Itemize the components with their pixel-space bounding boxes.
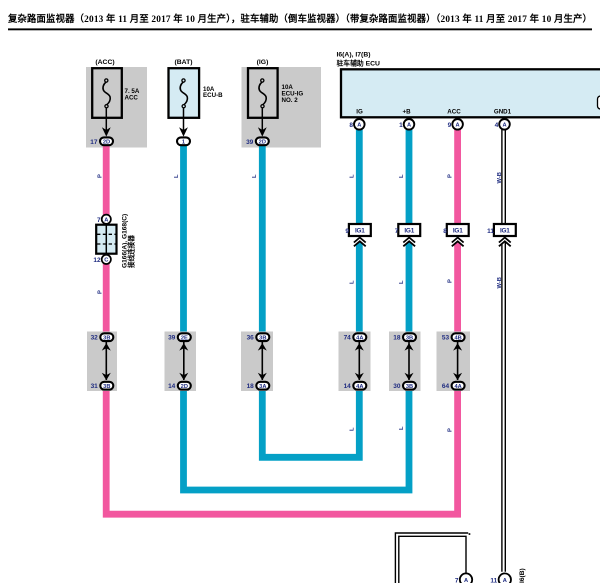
fuse F3 10A ECU-IG NO.2 [246, 59, 303, 146]
svg-text:IG1: IG1 [453, 228, 463, 235]
svg-text:36: 36 [247, 335, 255, 342]
svg-text:31: 31 [91, 383, 99, 390]
svg-text:12: 12 [93, 257, 101, 264]
wire GND1 white (double line) [502, 128, 505, 572]
fuse F1 7.5A ACC [90, 59, 140, 146]
svg-text:2D: 2D [181, 384, 188, 390]
junction connector 7 IG1 [395, 224, 420, 248]
svg-text:3B: 3B [406, 335, 413, 341]
svg-text:A: A [357, 123, 361, 129]
svg-text:7: 7 [395, 228, 399, 235]
svg-text:驻车辅助 ECU: 驻车辅助 ECU [337, 59, 381, 68]
svg-text:64: 64 [442, 383, 450, 390]
svg-text:A: A [502, 123, 506, 129]
svg-text:W-B: W-B [497, 172, 503, 183]
svg-text:I6(A), I7(B): I6(A), I7(B) [337, 52, 371, 59]
svg-text:32: 32 [91, 335, 99, 342]
svg-text:39: 39 [168, 335, 176, 342]
svg-text:L: L [349, 280, 355, 284]
svg-text:9: 9 [448, 122, 452, 129]
junction connector G166(A)/G168(C) [93, 214, 135, 268]
svg-text:IG1: IG1 [404, 228, 414, 235]
inline connector pair 32/31 3B [87, 332, 117, 392]
svg-text:3B: 3B [259, 335, 266, 341]
svg-text:IG1: IG1 [500, 228, 510, 235]
svg-text:接线连接器: 接线连接器 [127, 235, 136, 268]
svg-text:30: 30 [393, 383, 401, 390]
svg-text:11: 11 [487, 228, 494, 235]
svg-text:3B: 3B [103, 384, 110, 390]
svg-text:C: C [104, 258, 108, 264]
svg-text:A: A [464, 578, 468, 583]
svg-text:L: L [252, 174, 258, 178]
svg-text:IG: IG [356, 109, 363, 116]
svg-text:P: P [97, 174, 103, 178]
svg-text:18: 18 [247, 383, 255, 390]
inline connector pair 18/30 3B [389, 332, 421, 392]
svg-text:4A: 4A [356, 335, 363, 341]
svg-text:3A: 3A [259, 384, 266, 390]
svg-text:(BAT): (BAT) [175, 59, 193, 66]
svg-text:NO. 2: NO. 2 [282, 97, 299, 104]
svg-text:+B: +B [402, 109, 411, 116]
svg-text:39: 39 [246, 139, 254, 146]
fuse F2 10A ECU-B [169, 59, 224, 146]
pin 8 IG [349, 119, 364, 130]
inline connector pair 36/18 [241, 332, 273, 392]
pin 7 connector I6(B) [455, 573, 472, 583]
svg-text:L: L [399, 426, 405, 430]
wire BAT teal: fuse BAT to ECU pin +B [184, 128, 410, 490]
svg-text:(IG): (IG) [257, 59, 269, 66]
svg-text:4: 4 [495, 122, 499, 129]
svg-text:P: P [447, 279, 453, 283]
svg-text:I6(B): I6(B) [519, 568, 526, 583]
svg-text:ACC: ACC [447, 109, 461, 116]
svg-text:ECU-B: ECU-B [203, 92, 223, 99]
svg-text:L: L [399, 174, 405, 178]
svg-text:53: 53 [442, 335, 450, 342]
inline connector pair 39/14 [165, 332, 197, 392]
svg-text:4A: 4A [454, 384, 461, 390]
svg-text:11: 11 [490, 577, 497, 583]
svg-text:L: L [349, 174, 355, 178]
svg-text:A: A [456, 123, 460, 129]
svg-text:2D: 2D [103, 140, 110, 146]
svg-text:7: 7 [455, 577, 459, 583]
svg-text:W-B: W-B [497, 277, 503, 288]
pin 9 ACC [448, 119, 463, 130]
svg-text:G166(A), G168(C): G166(A), G168(C) [122, 214, 129, 268]
svg-text:8: 8 [349, 122, 353, 129]
svg-text:(ACC): (ACC) [95, 59, 114, 66]
fuse block shading (ACC) [86, 67, 147, 148]
svg-text:复杂路面监视器（2013 年 11 月至 2017 年 10: 复杂路面监视器（2013 年 11 月至 2017 年 10 月生产），驻车辅助… [7, 13, 592, 25]
svg-text:A: A [503, 578, 507, 583]
svg-text:2E: 2E [181, 335, 188, 341]
junction connector 9 IG1 [345, 224, 370, 248]
pin 11 connector I6(B) [490, 573, 511, 583]
svg-text:L: L [399, 280, 405, 284]
svg-text:IG1: IG1 [355, 228, 365, 235]
svg-text:9: 9 [345, 228, 349, 235]
svg-text:74: 74 [344, 335, 352, 342]
ECU U1 駐车辅助 ECU [337, 52, 600, 118]
fuse block shading (IG) [242, 67, 322, 148]
title [7, 13, 592, 30]
svg-text:1: 1 [399, 122, 403, 129]
wire IG teal: fuse IG to ECU pin IG [262, 128, 359, 457]
svg-text:P: P [447, 428, 453, 432]
pin 1 +B [399, 119, 414, 130]
svg-text:4A: 4A [356, 384, 363, 390]
svg-text:L: L [174, 174, 180, 178]
svg-text:3B: 3B [406, 384, 413, 390]
svg-text:4B: 4B [454, 335, 461, 341]
svg-text:L: L [349, 427, 355, 431]
wire ground white (bottom-left loop to pin 7) [395, 533, 470, 583]
pin 4 GND1 [495, 119, 510, 130]
svg-text:14: 14 [168, 383, 176, 390]
wire ACC pink: fuse ACC to ECU pin ACC [106, 128, 457, 514]
svg-text:GND1: GND1 [494, 109, 512, 116]
svg-text:8: 8 [443, 228, 447, 235]
svg-text:17: 17 [90, 139, 98, 146]
svg-text:1: 1 [182, 140, 185, 146]
svg-text:2D: 2D [259, 140, 266, 146]
inline connector pair 74/14 4A [339, 332, 371, 392]
svg-text:14: 14 [344, 383, 352, 390]
junction connector 8 IG1 [443, 224, 468, 248]
svg-text:18: 18 [393, 335, 401, 342]
svg-text:P: P [97, 290, 103, 294]
svg-text:A: A [104, 217, 108, 223]
svg-text:3B: 3B [103, 335, 110, 341]
inline connector pair 53/64 [437, 332, 471, 392]
svg-text:P: P [447, 174, 453, 178]
svg-text:7: 7 [97, 217, 101, 224]
junction connector 11 IG1 [487, 224, 516, 248]
svg-text:A: A [407, 123, 411, 129]
svg-text:ACC: ACC [125, 95, 139, 102]
